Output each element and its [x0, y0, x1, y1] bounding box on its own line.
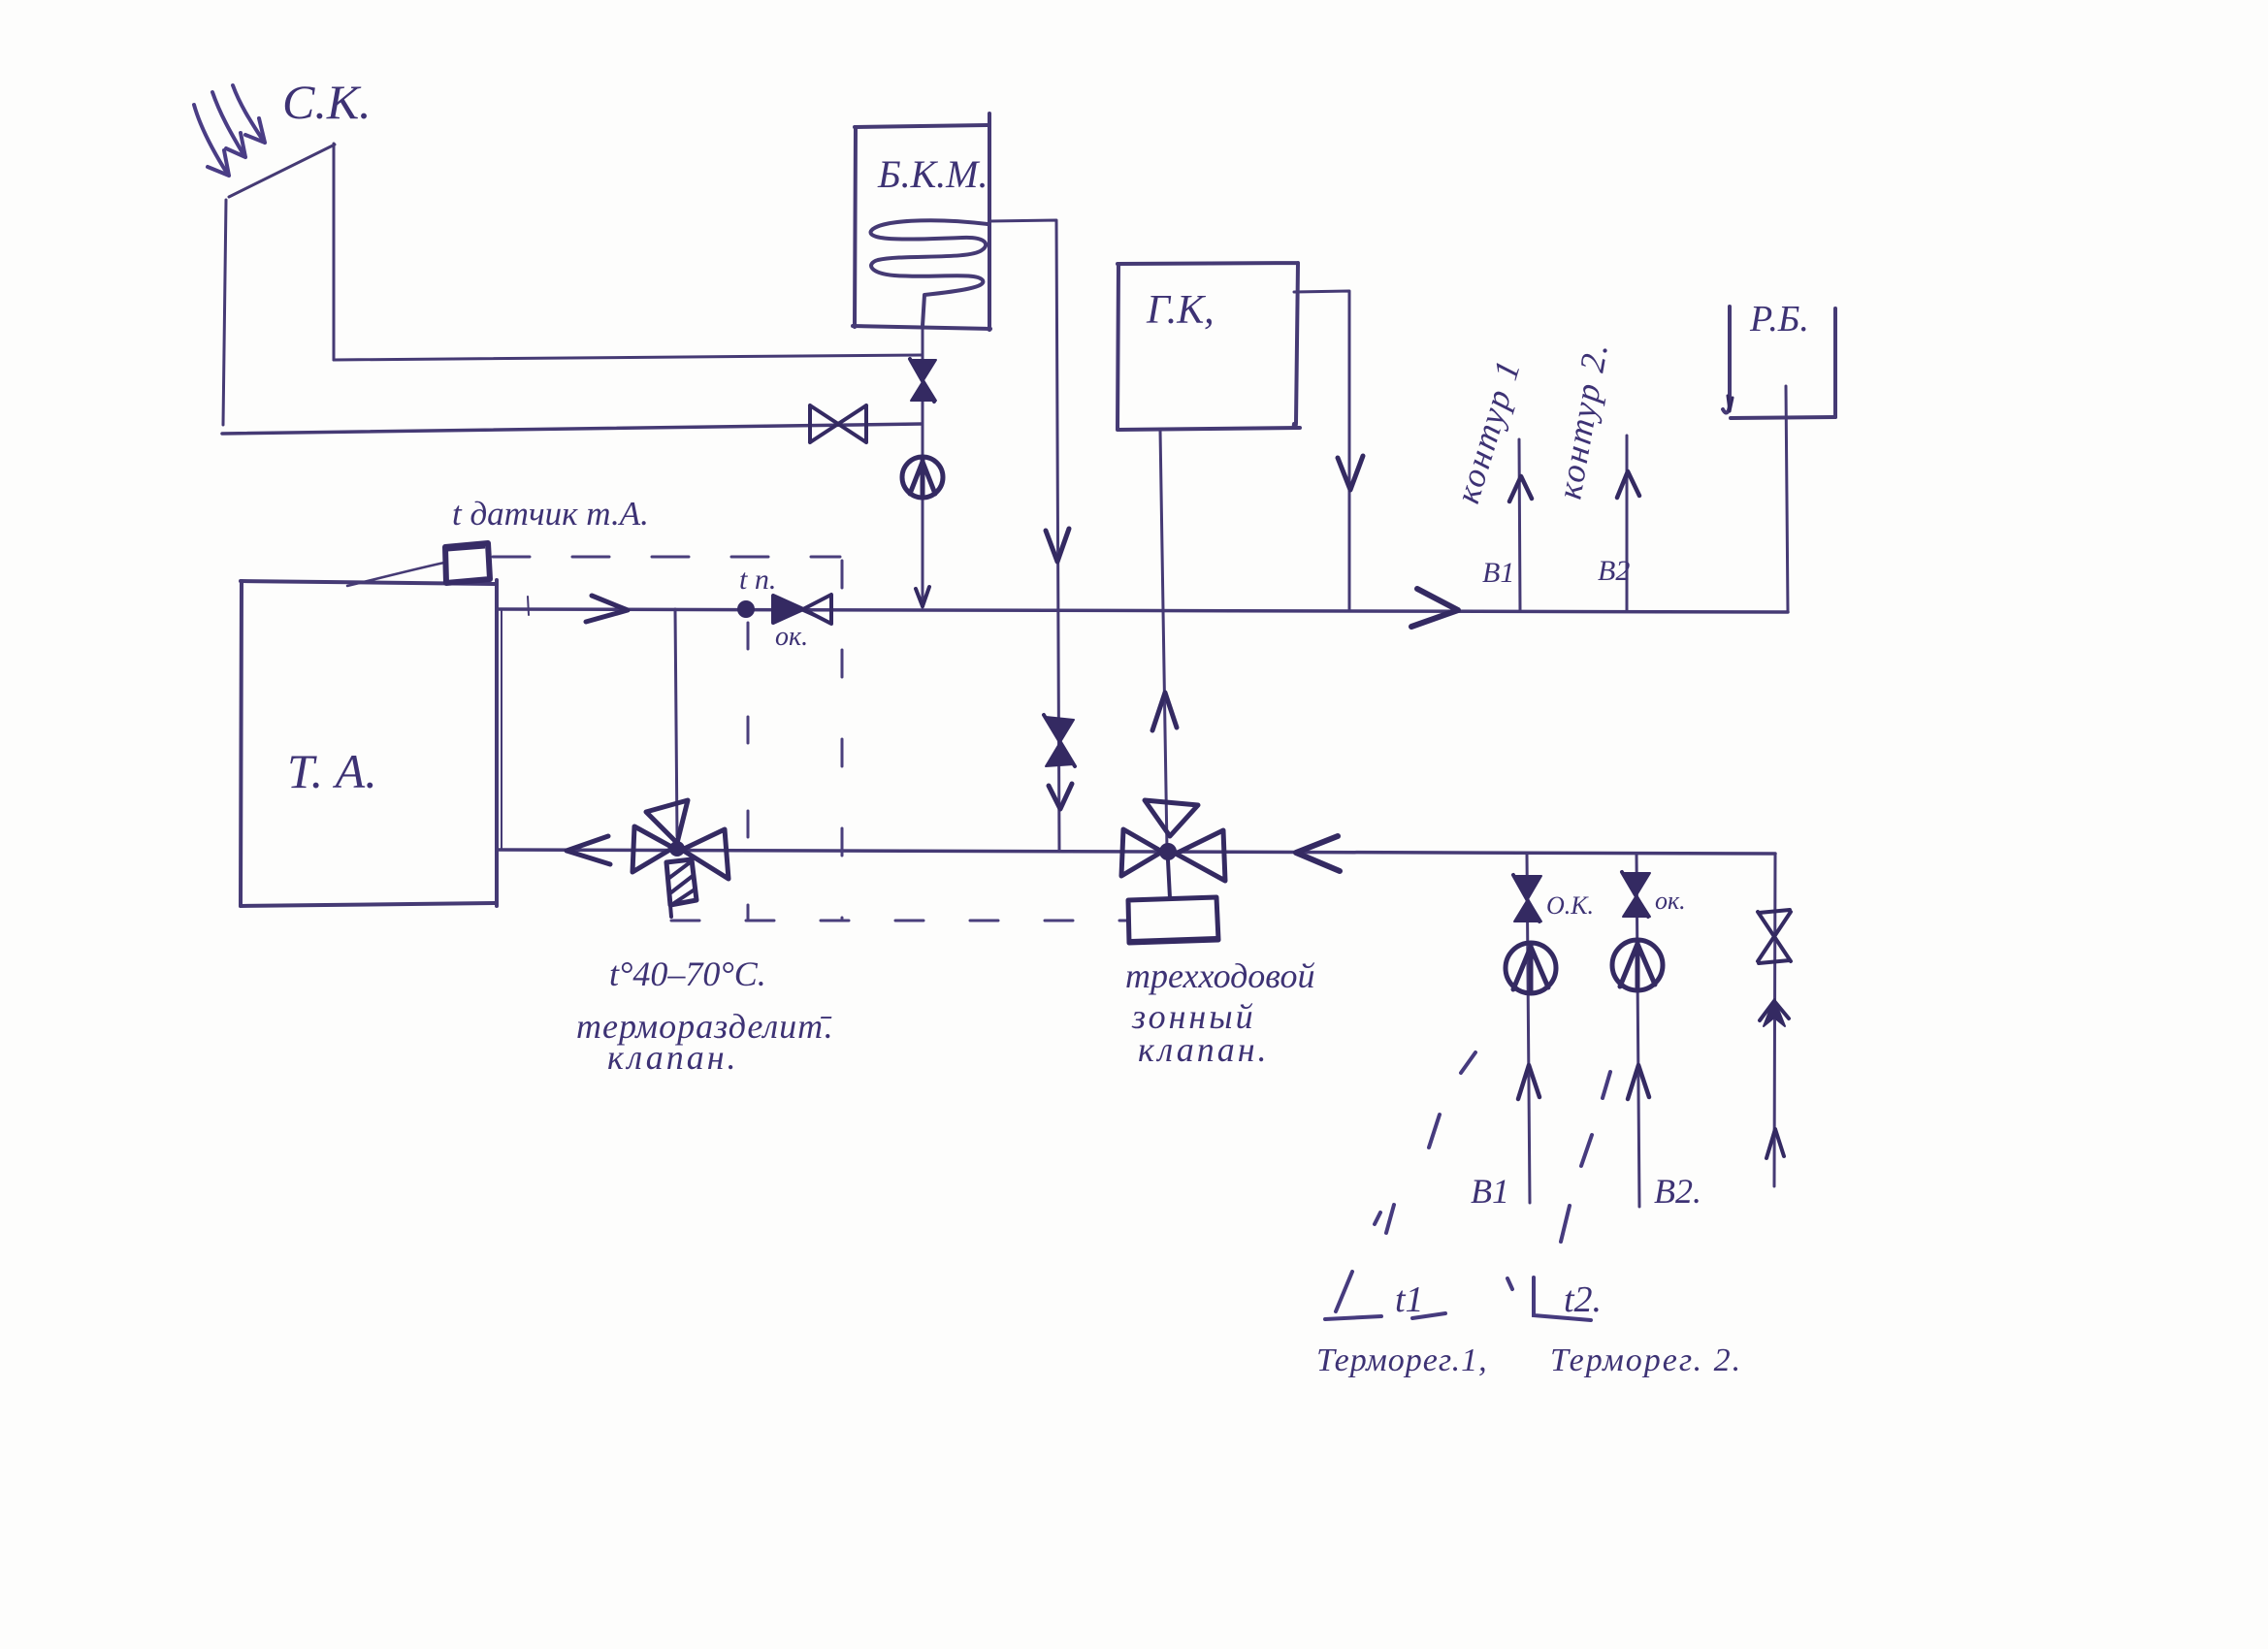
svg-text:В2: В2 [1598, 555, 1630, 587]
svg-text:В1: В1 [1482, 557, 1514, 589]
svg-text:ок.: ок. [1655, 887, 1686, 915]
svg-text:С.К.: С.К. [282, 75, 372, 129]
svg-text:Г.К,: Г.К, [1146, 288, 1215, 333]
svg-text:t1: t1 [1395, 1279, 1424, 1320]
svg-text:клапан.: клапан. [1138, 1030, 1270, 1069]
svg-text:В1: В1 [1471, 1172, 1509, 1211]
svg-text:t датчик т.А.: t датчик т.А. [452, 495, 649, 533]
svg-text:Терморег. 2.: Терморег. 2. [1550, 1342, 1742, 1378]
svg-text:t°40–70°C.: t°40–70°C. [609, 954, 766, 993]
svg-text:О.К.: О.К. [1546, 891, 1594, 920]
svg-text:t п.: t п. [739, 564, 776, 596]
svg-text:Б.К.М.: Б.К.М. [877, 152, 988, 196]
svg-text:t2.: t2. [1564, 1279, 1602, 1320]
svg-text:Р.Б.: Р.Б. [1749, 299, 1809, 339]
svg-text:В2.: В2. [1654, 1172, 1701, 1211]
svg-text:Т. А.: Т. А. [287, 744, 377, 798]
svg-text:трехходовой: трехходовой [1125, 956, 1314, 995]
svg-text:ок.: ок. [775, 622, 808, 652]
svg-text:клапан.: клапан. [607, 1038, 739, 1077]
svg-text:Терморег.1,: Терморег.1, [1316, 1342, 1488, 1378]
